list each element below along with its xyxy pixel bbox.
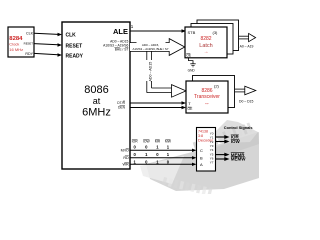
svg-text:3:8: 3:8: [198, 134, 203, 138]
bus arrow A0-A19 out of latch: [239, 33, 256, 48]
svg-text:Clock: Clock: [9, 42, 19, 47]
wire RD to decoder B: [130, 156, 197, 159]
svg-text:M/IO: M/IO: [121, 149, 129, 153]
svg-text:D0 – D15: D0 – D15: [239, 99, 253, 103]
svg-text:GND: GND: [188, 69, 196, 73]
svg-text:A16/S3 – A19/S6, BHE / S7: A16/S3 – A19/S6, BHE / S7: [133, 47, 169, 51]
svg-text:B: B: [200, 155, 203, 160]
svg-text:RDY: RDY: [25, 52, 33, 56]
svg-text:AD0 – AD15: AD0 – AD15: [148, 62, 152, 82]
svg-text:MR: MR: [155, 140, 161, 144]
pin OE (8282): [186, 54, 192, 58]
svg-text:Y7: Y7: [210, 161, 214, 165]
svg-text:MW: MW: [165, 140, 172, 144]
svg-text:WR: WR: [122, 162, 129, 166]
wire RDY 8284 to READY 8086: [34, 53, 62, 56]
pin DT/R (8086): [117, 101, 125, 105]
pins Y0-Y7 (74138): [210, 132, 214, 165]
svg-text:OE: OE: [186, 54, 192, 58]
svg-text:RD: RD: [123, 156, 129, 160]
svg-text:CLK: CLK: [66, 32, 77, 38]
wire Y2 to IOW: [216, 139, 241, 144]
svg-text:→: →: [204, 49, 209, 55]
pin WR (8086): [122, 162, 129, 166]
wire DT/R to T: [130, 101, 186, 104]
svg-text:ALE: ALE: [113, 27, 128, 36]
svg-text:STB: STB: [188, 30, 196, 35]
background IC chip watermark: [140, 120, 259, 196]
svg-text:A0 – A19: A0 – A19: [240, 45, 254, 49]
wire CLK 8284 to 8086: [34, 33, 62, 36]
wire WR to decoder A: [130, 163, 197, 166]
svg-text:↔: ↔: [204, 100, 210, 106]
pin OE (8286): [188, 107, 194, 111]
svg-text:OE: OE: [188, 107, 194, 111]
wire DEN to OE: [130, 106, 186, 109]
bus AD0-AD15 vertical to transceiver: [145, 51, 186, 97]
wire Y1 to IOR: [216, 135, 240, 140]
svg-text:C: C: [200, 148, 203, 153]
svg-text:at: at: [93, 96, 101, 106]
wire M/IO to decoder C: [130, 149, 197, 152]
wire RESET 8284 to 8086: [34, 43, 62, 46]
svg-text:(3): (3): [213, 30, 219, 35]
svg-text:6MHz: 6MHz: [82, 107, 111, 119]
CPU U 8086: [62, 22, 130, 169]
latch U 8282 stack: [185, 20, 239, 58]
decoder U 74138: [197, 128, 216, 172]
wire Y5 to MEMR: [216, 152, 246, 157]
svg-text:BHE / S7: BHE / S7: [115, 47, 129, 51]
clock generator U 8284: [8, 27, 34, 57]
svg-text:CLK: CLK: [26, 32, 34, 36]
svg-text:Transceiver: Transceiver: [194, 94, 220, 100]
svg-text:RESET: RESET: [24, 42, 34, 46]
svg-text:MEMW: MEMW: [231, 157, 246, 162]
ground GND at latch OE: [188, 58, 196, 73]
svg-text:RESET: RESET: [66, 44, 83, 50]
pin group AD0-AD15 A16/S3-A19/S6 BHE/S7 (8086): [103, 40, 128, 52]
truth table row 3 values: [134, 159, 170, 164]
wire ALE to STB of latch: [130, 29, 186, 32]
svg-text:IOR: IOR: [132, 140, 139, 144]
svg-text:IOW: IOW: [143, 140, 151, 144]
truth table headers IOR IOW MR MW: [132, 139, 172, 143]
svg-text:8086: 8086: [84, 84, 108, 96]
pin RD (8086): [123, 156, 129, 160]
svg-text:READY: READY: [66, 54, 84, 60]
svg-text:(2): (2): [214, 83, 220, 88]
truth table row 2 values: [134, 152, 170, 157]
svg-text:A: A: [200, 162, 203, 167]
truth table row 1 values: [134, 145, 170, 150]
wire Y6 to MEMW: [216, 157, 247, 162]
bus AD0-AD15 A16/S3-A19/S6 BHE/S7 to latch: [130, 39, 185, 56]
svg-text:8282: 8282: [200, 36, 211, 42]
svg-text:74138: 74138: [198, 130, 208, 134]
svg-text:16 MHz: 16 MHz: [9, 47, 23, 52]
pin DEN (8086): [118, 105, 126, 109]
svg-text:DEN: DEN: [118, 105, 126, 109]
bus arrow D0-D15 out of transceiver: [235, 86, 256, 103]
svg-text:Control Signals: Control Signals: [224, 125, 253, 130]
transceiver U 8286 stack: [186, 76, 235, 114]
pin M/IO (8086): [121, 148, 129, 152]
svg-text:IOW: IOW: [231, 139, 241, 144]
